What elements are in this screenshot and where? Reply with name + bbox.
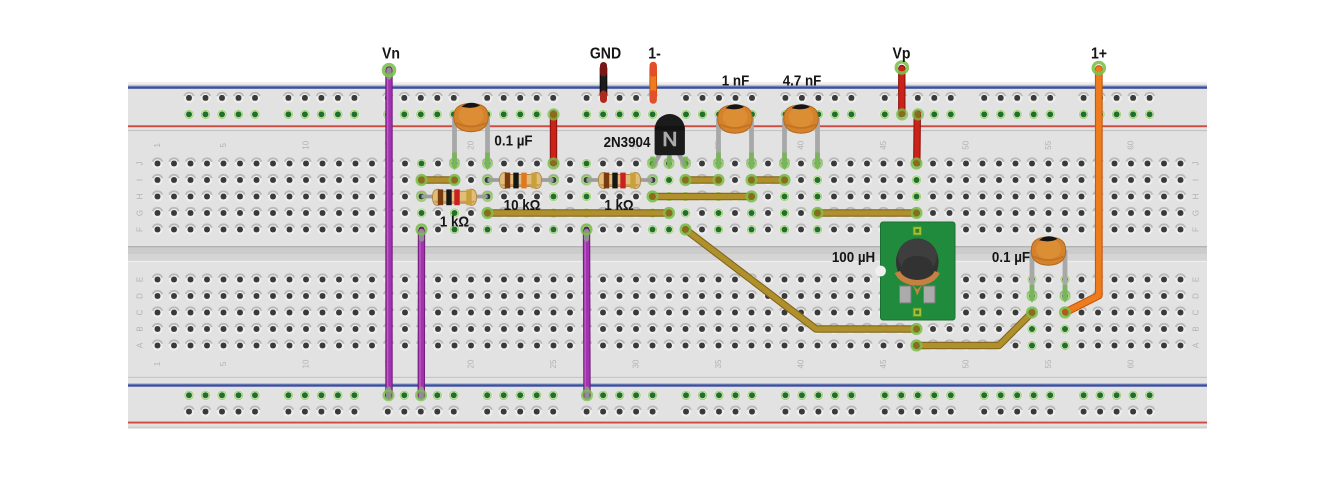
bottom rail red line [128,422,1207,424]
wire jumper I17-I19 (tan) [422,176,455,183]
svg-text:A: A [1191,342,1200,348]
capacitor C1 0.1 uF (J19/J21) [452,117,457,168]
svg-text:H: H [1191,193,1200,199]
capacitor C4 0.1 uF (D54/D56) [1030,250,1035,300]
capacitor C3 4.7 nF (J39/J41) [782,118,787,168]
connection rings [417,159,1069,350]
wire 1- (orange, to top blue rail) [649,68,657,96]
terminal node Vn [383,65,394,76]
svg-text:20: 20 [467,140,476,149]
wire jumper G41-G47 (tan) [818,209,917,216]
wire A47 to C54 (tan, bent) [917,313,1033,346]
wire F33 to B47 (tan, bent) [686,230,917,330]
svg-text:1: 1 [153,143,162,148]
column/row labels [136,140,1201,368]
svg-text:60: 60 [1127,140,1136,149]
bottom rail gray line [128,377,1207,378]
capacitor C2 1 nF (J35/J37) [716,118,721,168]
terminal node Vp [896,62,907,73]
svg-text:10: 10 [302,140,311,149]
svg-text:60: 60 [1127,359,1136,368]
wire jumper I33-I35 (tan) [686,176,719,183]
svg-text:GND: GND [590,45,621,63]
svg-text:50: 50 [962,140,971,149]
svg-text:1 kΩ: 1 kΩ [604,197,633,214]
svg-text:D: D [136,293,145,299]
wire jumper G21-G32 (tan) [488,209,670,216]
svg-text:E: E [1191,277,1200,282]
wire from F27 to bottom rail (purple) [583,232,591,397]
svg-text:50: 50 [962,359,971,368]
hole grid (decorative) [152,93,1185,417]
svg-text:1: 1 [153,361,162,366]
resistor R3 1 kOhm (I27-I31) [587,178,653,182]
svg-text:C: C [136,309,145,315]
wire jumper red rail to J25 [550,114,557,163]
svg-text:E: E [136,277,145,282]
svg-text:10: 10 [302,359,311,368]
svg-text:100 µH: 100 µH [832,249,875,266]
svg-text:4.7 nF: 4.7 nF [783,73,822,90]
svg-text:G: G [136,210,145,216]
wire jumper H31-H37 (tan) [653,193,752,200]
svg-text:B: B [1191,326,1200,331]
terminal node 1+ [1093,62,1104,73]
svg-text:25: 25 [549,359,558,368]
resistor R2 10 kOhm (I21-I25) [488,178,554,182]
svg-text:I: I [136,179,145,181]
center channel [128,246,1207,262]
svg-text:30: 30 [632,359,641,368]
wire 1+ (orange, down to C56) [1066,69,1099,312]
svg-text:B: B [136,326,145,331]
wire Vp (red, to top red rail) [898,69,905,114]
resistor R1 1 kOhm (H17-H21) [422,195,488,199]
top rail red line [128,125,1207,127]
svg-text:G: G [1191,210,1200,216]
svg-text:2N3904: 2N3904 [604,134,651,151]
wire jumper I37-I39 (tan) [752,176,785,183]
svg-text:A: A [136,342,145,348]
wire Vn (purple jumper to bottom negative rail) [385,70,392,396]
svg-text:Vp: Vp [893,45,911,63]
top rail blue line [128,85,1207,86]
svg-text:1 nF: 1 nF [722,73,750,90]
bottom rail blue line [128,383,1207,384]
svg-text:1-: 1- [648,45,661,63]
svg-text:1 kΩ: 1 kΩ [440,214,469,231]
svg-text:H: H [136,193,145,199]
svg-text:40: 40 [797,359,806,368]
svg-text:55: 55 [1044,140,1053,149]
svg-text:45: 45 [879,359,888,368]
svg-text:10 kΩ: 10 kΩ [504,197,541,214]
component text labels [382,45,1107,267]
wire from F17 to bottom rail (purple) [418,232,426,397]
inductor L1 100 uH on green PCB [881,222,956,320]
wire GND (black, to top blue rail) [600,68,608,95]
svg-text:F: F [1191,227,1200,232]
svg-text:1+: 1+ [1091,45,1107,63]
svg-text:20: 20 [467,359,476,368]
svg-text:C: C [1191,309,1200,315]
svg-text:5: 5 [219,361,228,366]
svg-text:Vn: Vn [382,45,400,63]
svg-text:I: I [1191,179,1200,181]
svg-text:F: F [136,227,145,232]
wire jumper red rail to J47 [913,114,921,163]
svg-text:J: J [136,162,145,166]
svg-text:45: 45 [879,140,888,149]
svg-text:35: 35 [714,359,723,368]
transistor Q1 2N3904 [653,152,661,167]
svg-text:55: 55 [1044,359,1053,368]
breadboard body [128,82,1207,429]
svg-text:5: 5 [219,143,228,148]
svg-text:0.1 µF: 0.1 µF [494,133,532,150]
svg-text:0.1 µF: 0.1 µF [992,249,1030,266]
svg-text:D: D [1191,293,1200,299]
svg-text:J: J [1191,162,1200,166]
svg-text:40: 40 [797,140,806,149]
